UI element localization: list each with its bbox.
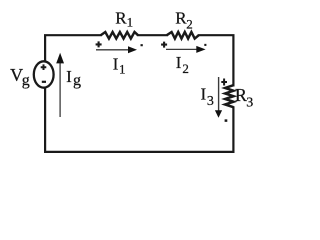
svg-text:g: g: [73, 72, 81, 89]
svg-text:1: 1: [119, 61, 126, 76]
svg-text:R: R: [115, 8, 127, 27]
svg-text:I: I: [66, 67, 72, 86]
svg-text:R: R: [235, 85, 247, 105]
svg-text:3: 3: [246, 95, 253, 110]
svg-text:1: 1: [127, 15, 134, 30]
svg-text:2: 2: [186, 16, 193, 31]
svg-text:I: I: [113, 54, 119, 73]
svg-text:I: I: [176, 53, 182, 72]
svg-text:I: I: [201, 84, 207, 103]
svg-text:g: g: [22, 72, 30, 89]
svg-text:2: 2: [182, 61, 189, 76]
svg-text:3: 3: [207, 94, 214, 109]
